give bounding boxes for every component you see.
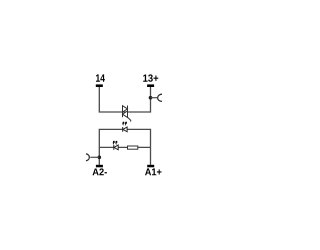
LED D1 (top rung) [123,127,127,132]
resistor R1 [128,146,138,149]
wire test tap 13 [151,97,158,99]
triac V1 [123,106,131,122]
terminal pad 13+ [147,84,154,87]
LED D2 (middle rung) [114,145,118,150]
terminal pad 14 [96,84,103,87]
test socket arc (A2) [86,154,89,161]
terminal label A1+ [145,168,162,175]
terminal label 13+ [143,74,158,81]
wire middle rung [99,146,150,148]
LED D2 arrows [113,141,118,145]
node junction on A2 lead [98,156,102,160]
input box outline [99,129,150,165]
terminal label 14 [96,74,105,81]
wire test tap A2 [90,156,99,158]
wire 14-to-13+ loop [99,87,150,112]
terminal label A2- [93,168,107,175]
terminal pad A2 [96,165,103,168]
test socket arc (13) [158,94,162,101]
LED D1 arrows [122,122,127,126]
node junction on 13+ lead [149,96,153,100]
terminal pad A1 [147,165,154,168]
